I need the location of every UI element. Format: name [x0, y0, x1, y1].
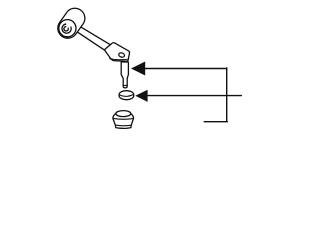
washer face edge line: [119, 94, 134, 96]
callout vertical line: [226, 68, 228, 122]
arrow 1 (to ball joint): [131, 62, 145, 76]
plate end of arm: [105, 43, 130, 62]
leader line 1: [145, 68, 227, 70]
arrow 2 (to washer): [135, 90, 147, 102]
bushing center hole arc: [64, 27, 68, 31]
nut mid line: [113, 117, 134, 120]
nut top ellipse: [116, 111, 131, 117]
bushing eye outer outline: [58, 8, 85, 38]
bushing eye front rim: [59, 20, 76, 37]
bushing inner ring arc: [62, 24, 71, 33]
nut body: [113, 114, 134, 129]
plate thickness line: [110, 59, 128, 60]
leader line 2: [147, 95, 241, 97]
stud thread line: [123, 84, 127, 86]
washer: [119, 91, 134, 100]
ball joint collar and stud: [121, 62, 128, 88]
callout bottom line: [204, 121, 227, 123]
wire: shaft of control arm: [77, 26, 115, 50]
plate hole: [118, 52, 125, 58]
nut lower line: [115, 124, 131, 127]
